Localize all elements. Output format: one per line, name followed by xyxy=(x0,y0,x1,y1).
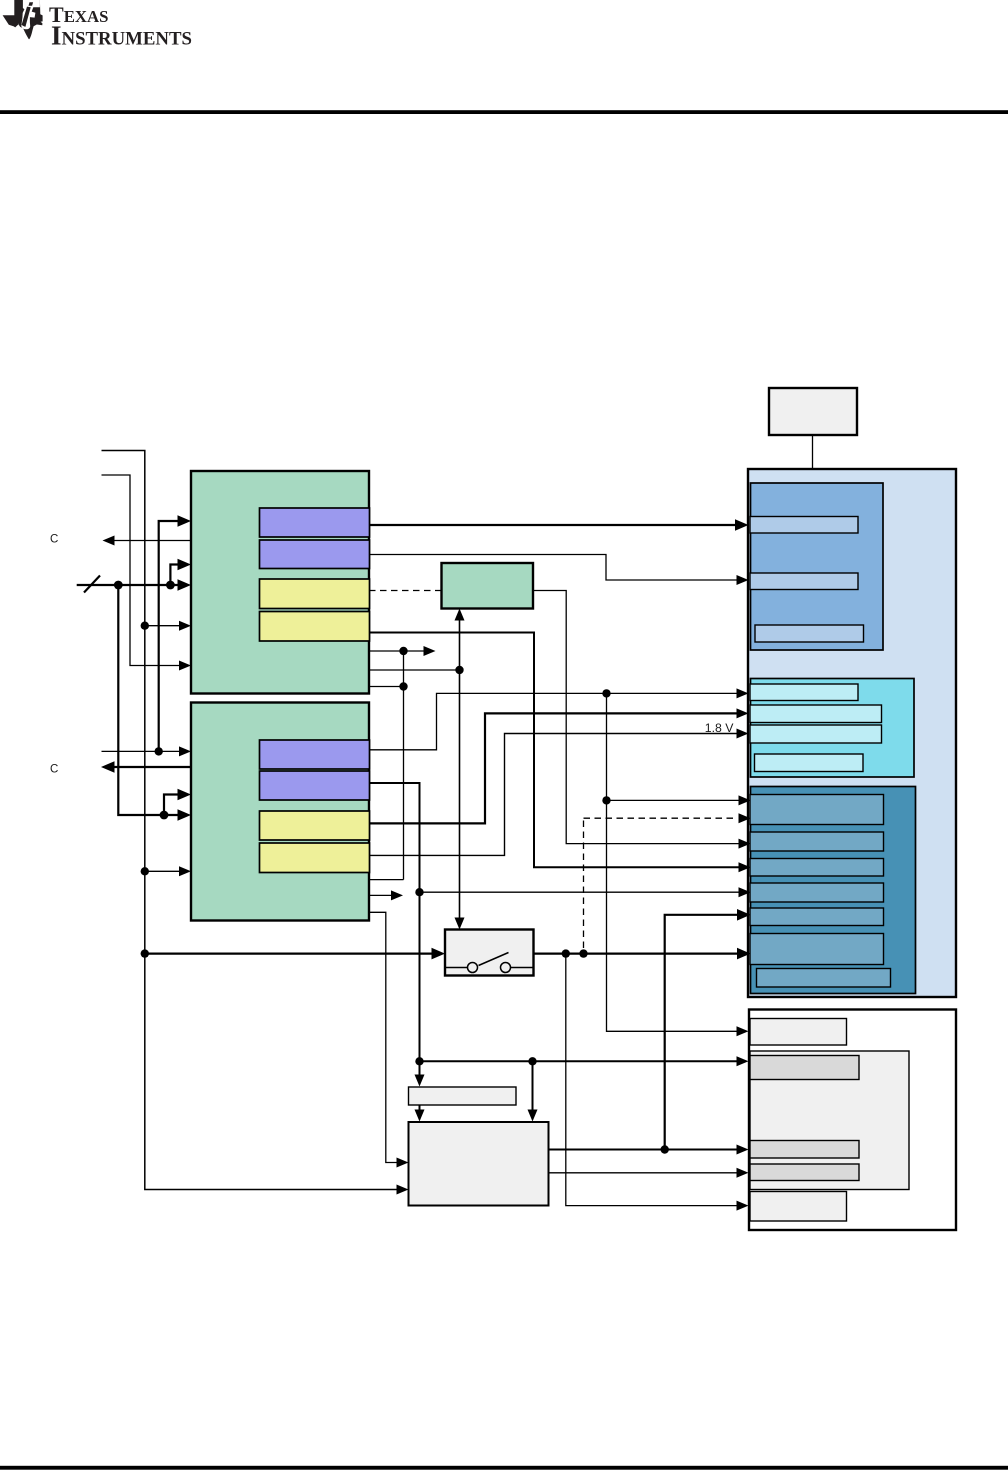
wire: mux output to teal arrow3 xyxy=(533,591,751,849)
wire: gray box output 1 xyxy=(549,1145,749,1155)
bar: teal bar 2 xyxy=(750,832,884,851)
bar: teal bar 1 xyxy=(750,795,884,825)
bar: teal bar 5 xyxy=(750,908,884,926)
svg-text:C: C xyxy=(50,764,58,776)
bar: cyan bar 1 xyxy=(750,684,858,701)
bar: dark gray bar 3 xyxy=(750,1164,859,1181)
bar: g2 purple bar 1 xyxy=(260,740,370,769)
wire: C output arrow from green2 xyxy=(101,761,191,773)
bar: dark gray bar 1 xyxy=(750,1056,859,1080)
wire: g2 short output arrow xyxy=(369,890,403,900)
bar: g1 yellow bar 1 xyxy=(260,579,370,609)
bar: cyan bar 4 xyxy=(755,754,864,772)
wire: bus drop down to green2 xyxy=(118,585,191,821)
wire: g1 purple1 to blue bar1 xyxy=(369,519,749,531)
wire: stub A vertical trunk (top-left to bottom gray box) xyxy=(102,451,409,1195)
wire: branch to gray container arrow2 xyxy=(420,1056,749,1066)
bar: gray top bar xyxy=(750,1019,847,1046)
wire: small bar down-arrow into gray box xyxy=(415,1105,425,1122)
wire: g1 output short arrow xyxy=(369,646,436,656)
bar: teal bar 4 xyxy=(750,883,884,902)
bar: g1 purple bar 1 xyxy=(260,508,370,537)
wire: stub B elbow into green1 xyxy=(102,475,192,671)
bar: g1 purple bar 2 xyxy=(260,540,370,569)
svg-text:C: C xyxy=(50,534,58,546)
wire: connector from gray box to container xyxy=(812,435,814,469)
block: cyan sub-block xyxy=(751,679,915,778)
bar: gray bottom bar xyxy=(750,1192,847,1222)
block: blue sub-block xyxy=(751,483,884,650)
bar: small gray bar above gray box xyxy=(409,1087,517,1105)
wire: g2 yellow1 to cyan arrow2 (1.8V rail) xyxy=(369,708,749,823)
wire: trunk A branch to green1 xyxy=(141,621,191,631)
switch symbol xyxy=(445,953,534,973)
wire: dashed net from switch line to teal arrow2 xyxy=(584,813,751,948)
block: switch box xyxy=(445,930,534,976)
bar: blue bar 3 xyxy=(755,625,864,642)
bottom rule xyxy=(0,1466,1008,1470)
wire: g2 yellow2 to cyan arrow3 xyxy=(369,729,749,856)
wire: bus elbow up into green2 xyxy=(164,789,191,815)
wire: g2 bottom elbow to gray box left xyxy=(369,912,409,1167)
top rule xyxy=(0,110,1008,114)
wire: branch to teal arrow5 xyxy=(420,887,751,897)
wire: g1 to g2 link via x403 xyxy=(369,651,408,880)
bar: g2 yellow bar 2 xyxy=(260,843,370,873)
block: small green mux box xyxy=(442,563,534,609)
wire: left input into green2 xyxy=(102,746,192,756)
wire: riser x664 to teal arrow6 xyxy=(661,909,751,1154)
wire: dashed g1 yellow1 to mux xyxy=(369,590,442,592)
wire: trunk A branch to green2 xyxy=(141,866,191,876)
wire: trunk A branch to switch input xyxy=(141,948,445,960)
block: gray inner panel xyxy=(750,1051,909,1190)
wire: branch down into gray box top xyxy=(528,1061,538,1121)
bar: blue bar 1 xyxy=(750,517,858,534)
bar: cyan bar 2 xyxy=(750,705,882,723)
bar: g1 yellow bar 2 xyxy=(260,612,370,642)
block: top-right small gray box xyxy=(769,388,857,435)
wire: bus line into green1 with width slash xyxy=(77,576,191,593)
block: green block 2 xyxy=(191,703,369,921)
bar: g2 yellow bar 1 xyxy=(260,811,370,840)
wire: vertical x606 down to gray container top arrow xyxy=(602,693,750,1036)
wire: bus elbow up into green1 xyxy=(170,559,191,585)
wire: vertical link green2-line up into green1 top input xyxy=(155,515,192,755)
wire: switch output to teal arrow7 xyxy=(534,948,751,960)
block: right light-blue container xyxy=(748,469,956,997)
bar: teal bar 7 xyxy=(757,969,891,988)
bar: teal bar 6 xyxy=(750,934,884,965)
TI logo icon (Texas map with ti) xyxy=(3,0,43,39)
wire: gray box output 2 xyxy=(549,1168,749,1178)
wire: g1 yellow2 to teal arrow4 xyxy=(369,633,751,873)
wire: C output arrow from green1 xyxy=(103,536,192,546)
bar: teal bar 3 xyxy=(750,859,884,877)
block: bottom gray box xyxy=(409,1122,549,1206)
block: teal sub-block xyxy=(751,787,916,994)
bar: dark gray bar 2 xyxy=(750,1141,859,1159)
wire: g2 purple2 trunk down to small bar xyxy=(369,783,425,1087)
block: bottom-right white container xyxy=(749,1010,956,1231)
bar: blue bar 2 xyxy=(750,573,858,590)
bar: g2 purple bar 2 xyxy=(260,771,370,800)
wire: switch branch down to gray container bottom arrow xyxy=(566,954,749,1211)
wire: g2 purple1 to cyan arrow1 xyxy=(369,688,749,749)
wire: g1 purple2 elbow to blue bar2 xyxy=(369,555,749,586)
block: green block 1 xyxy=(191,471,369,694)
svg-text:1.8 V: 1.8 V xyxy=(705,721,735,735)
bar: cyan bar 3 xyxy=(750,725,882,743)
wire: vertical mux-switch with up and down arrows xyxy=(369,609,465,930)
